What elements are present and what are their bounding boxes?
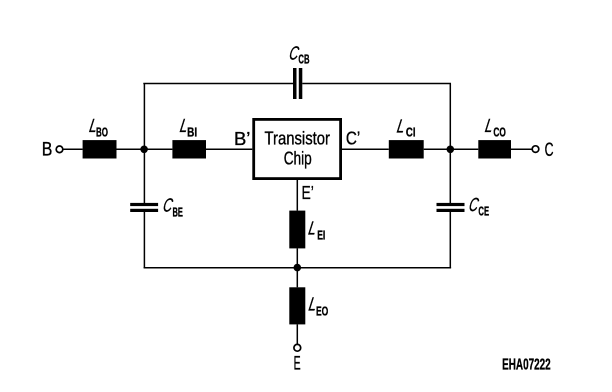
capacitor C_CB — [293, 68, 302, 99]
wire left vertical from top rail corner to node B — [143, 84, 145, 150]
inductor L_CI — [389, 140, 424, 158]
node at base rail junction (dot) — [140, 146, 148, 154]
svg-text:EO: EO — [316, 304, 328, 318]
wire node to L_EO — [296, 268, 298, 288]
label C_CE — [467, 195, 489, 218]
wire C_CE to bottom rail — [449, 212, 451, 268]
transistor chip U1 box — [254, 119, 341, 178]
top rail right wire — [302, 83, 451, 85]
svg-text:E’: E’ — [302, 182, 314, 203]
svg-text:CO: CO — [493, 126, 506, 140]
svg-text:Chip: Chip — [284, 147, 312, 168]
wire L_BI to chip — [206, 148, 252, 150]
svg-text:B’: B’ — [234, 128, 250, 149]
svg-text:B: B — [42, 140, 53, 161]
wire chip to L_CI — [342, 148, 389, 150]
wire L_EI to bottom rail node — [296, 248, 298, 267]
label L_EO — [307, 294, 328, 318]
svg-text:C’: C’ — [346, 128, 360, 149]
wire chip bottom to L_EI — [296, 179, 298, 211]
svg-text:E: E — [294, 354, 301, 375]
svg-text:BE: BE — [173, 205, 183, 219]
inductor L_BI — [172, 140, 206, 158]
label L_EI — [307, 219, 325, 243]
svg-text:BI: BI — [187, 126, 197, 140]
label L_BO — [88, 116, 108, 139]
svg-text:CB: CB — [298, 53, 309, 67]
wire node B down to C_BE — [143, 149, 145, 203]
wire C_BE to bottom rail — [143, 212, 145, 268]
wire node to L_BI — [144, 148, 173, 150]
wire L_BO to node B — [117, 148, 144, 150]
svg-text:CI: CI — [406, 125, 416, 139]
bottom rail wire — [144, 267, 452, 269]
chip text — [265, 127, 331, 168]
svg-text:CE: CE — [478, 205, 489, 219]
svg-text:EI: EI — [317, 229, 325, 243]
terminal C open circle — [532, 146, 539, 153]
inductor L_CO — [478, 140, 511, 158]
inductor L_BO — [83, 140, 117, 158]
node at collector rail junction (dot) — [447, 146, 455, 154]
inductor L_EI — [289, 211, 305, 249]
node at emitter rail junction (dot) — [294, 264, 302, 272]
label L_BI — [178, 116, 197, 139]
wire L_CI to node C — [424, 148, 451, 150]
capacitor C_BE — [130, 203, 158, 212]
label C_CB — [288, 44, 310, 67]
svg-text:BO: BO — [96, 126, 108, 140]
wire B terminal to L_BO — [63, 148, 82, 150]
wire node to L_CO — [450, 148, 478, 150]
wire L_CO to C terminal — [511, 148, 532, 150]
top rail left wire — [143, 83, 293, 85]
inductor L_EO — [289, 287, 305, 324]
label C_BE — [162, 195, 183, 219]
capacitor C_CE — [437, 203, 465, 212]
label L_CO — [484, 116, 507, 139]
wire L_EO to E terminal — [296, 324, 298, 344]
wire right vertical from top rail corner to node C — [449, 84, 451, 150]
terminal B open circle — [56, 146, 63, 153]
terminal E open circle — [294, 344, 301, 351]
svg-text:C: C — [545, 140, 554, 161]
svg-text:Transistor: Transistor — [265, 127, 331, 148]
wire node C down to C_CE — [449, 149, 451, 203]
svg-text:EHA07222: EHA07222 — [502, 357, 551, 374]
label L_CI — [395, 117, 415, 140]
